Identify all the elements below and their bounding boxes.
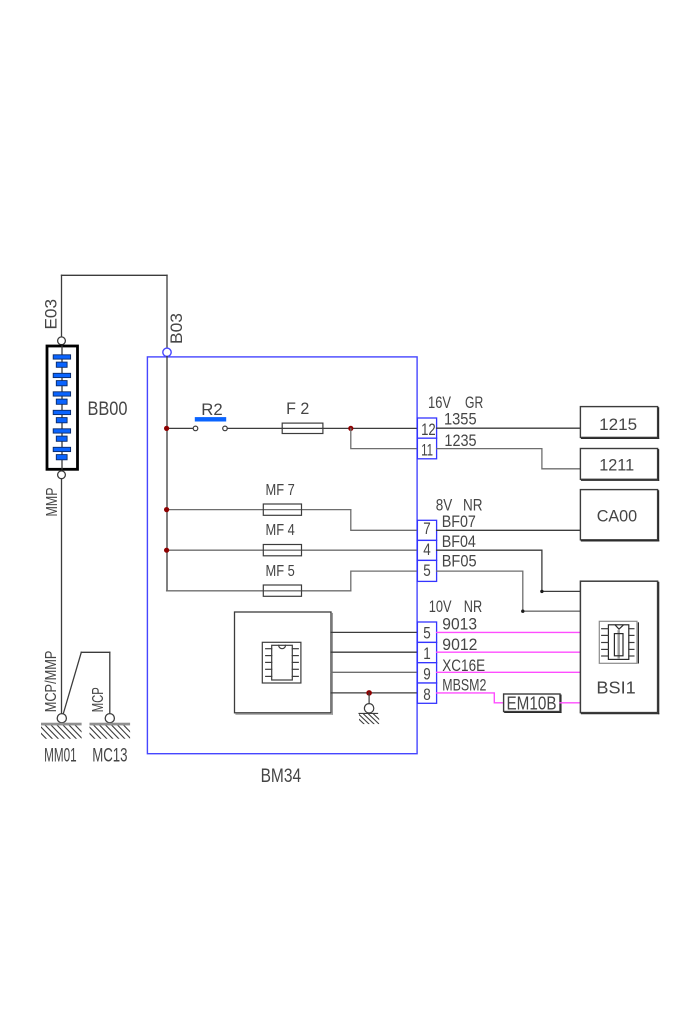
wire 9013 pin5 to BSI1 — [437, 631, 581, 633]
ECU box BM34 — [147, 357, 417, 754]
wire BF07 pin7 to CA00 — [437, 529, 581, 531]
connector box CA00 — [580, 490, 657, 540]
fuse F2 — [282, 423, 323, 433]
wire MF4 feed — [167, 549, 418, 551]
wire R2 feed — [167, 427, 194, 429]
wire U1 to pin 5 — [331, 631, 417, 633]
node battery top terminal — [58, 337, 66, 345]
wire BM34 supply vertical — [166, 275, 168, 348]
fuse MF5 — [263, 585, 301, 596]
pin 11 — [417, 438, 436, 459]
svg-text:E03: E03 — [41, 299, 60, 330]
svg-text:12: 12 — [421, 420, 436, 439]
wire MF5 feed — [167, 590, 351, 592]
svg-text:BM34: BM34 — [261, 766, 302, 787]
svg-text:MBSM2: MBSM2 — [442, 675, 486, 694]
wire through F2 to pin 12 — [282, 427, 417, 429]
wire MF7 feed — [167, 509, 351, 511]
wire MBSM2 pin8 to EM10B — [437, 693, 504, 703]
svg-text:BB00: BB00 — [88, 399, 128, 420]
connector box 1211 — [580, 449, 657, 480]
battery BB00 — [47, 346, 78, 469]
wire battery positive vertical — [61, 275, 63, 337]
svg-text:1355: 1355 — [444, 410, 477, 429]
wire U1 to pin 9 — [331, 671, 417, 673]
svg-text:1235: 1235 — [444, 431, 476, 450]
BM34 right edge pin column — [417, 418, 436, 703]
pin 1 — [417, 642, 436, 662]
svg-text:B03: B03 — [167, 313, 186, 344]
node battery bottom terminal — [58, 471, 66, 479]
wire U1 to pin 8 — [331, 692, 417, 694]
wire 9012 pin1 to BSI1 — [437, 651, 581, 653]
svg-text:MCP: MCP — [90, 687, 107, 712]
pin 5 lower connector — [417, 622, 436, 642]
pin 5 — [417, 560, 436, 581]
svg-text:4: 4 — [423, 540, 431, 559]
wire diagonal to second ground — [64, 652, 82, 713]
node junction feed MF7 — [164, 507, 169, 512]
relay contact R2 — [193, 417, 227, 431]
svg-text:8: 8 — [423, 685, 431, 704]
wire junction to pin 11 — [351, 428, 418, 448]
svg-text:BF05: BF05 — [442, 552, 477, 571]
svg-text:BSI1: BSI1 — [596, 678, 635, 698]
wire R2 to F2 — [227, 427, 282, 429]
pin 8 — [417, 683, 436, 703]
wire MF5 to pin 5 — [351, 571, 418, 591]
svg-text:MC13: MC13 — [92, 745, 127, 766]
wire battery negative to ground — [61, 479, 63, 714]
node BM34 supply entry — [163, 348, 171, 356]
wire EM10B to BSI1 — [560, 702, 580, 704]
svg-text:9: 9 — [423, 665, 431, 684]
svg-text:BF04: BF04 — [442, 532, 476, 551]
node corner BF04 — [540, 590, 543, 593]
wire MF7 to pin 7 — [351, 510, 418, 531]
wire second ground vertical — [109, 652, 111, 713]
wire internal feed vertical — [166, 357, 168, 591]
wire 1235 pin11 to 1211 — [437, 449, 581, 469]
wire horizontal to second ground — [81, 651, 110, 653]
ground MC13 — [82, 714, 138, 740]
pin 7 — [417, 520, 436, 540]
wire XC16E pin9 to BSI1 — [437, 671, 581, 673]
wire 1355 pin12 to 1215 — [437, 427, 581, 429]
node junction feed R2 — [164, 426, 169, 431]
pin numbers — [421, 420, 436, 704]
pin 9 — [417, 663, 436, 683]
pin 4 — [417, 540, 436, 560]
svg-text:1211: 1211 — [599, 456, 634, 475]
wire U1 to pin 1 — [331, 651, 417, 653]
svg-text:MF 7: MF 7 — [266, 482, 295, 499]
svg-text:9012: 9012 — [442, 635, 477, 654]
ground internal BM34 — [353, 704, 384, 724]
wire BF05 pin5 to BSI1 — [437, 571, 581, 611]
fuse MF7 — [263, 504, 301, 515]
svg-text:R2: R2 — [201, 400, 222, 419]
svg-text:F 2: F 2 — [286, 399, 309, 418]
svg-text:MF 4: MF 4 — [266, 522, 295, 539]
svg-text:5: 5 — [423, 561, 431, 580]
svg-text:7: 7 — [423, 519, 431, 538]
wire BF04 pin4 to BSI1 — [437, 550, 581, 591]
svg-text:EM10B: EM10B — [507, 694, 557, 714]
svg-text:9013: 9013 — [442, 615, 477, 634]
svg-text:1: 1 — [423, 644, 431, 663]
pin 12 — [417, 418, 436, 438]
wire top horizontal B+ — [62, 274, 168, 276]
ECU box BSI1 — [580, 581, 657, 712]
node corner BF05 — [521, 610, 524, 613]
svg-text:11: 11 — [421, 441, 433, 460]
svg-text:MF 5: MF 5 — [266, 563, 295, 580]
IC U1 icon — [262, 642, 301, 683]
svg-text:BF07: BF07 — [442, 512, 476, 531]
wire ground stub — [368, 693, 370, 704]
connector box EM10B — [504, 694, 560, 712]
IC BSI icon — [599, 621, 638, 663]
node junction F2 out — [348, 426, 353, 431]
svg-text:CA00: CA00 — [597, 506, 638, 525]
svg-text:5: 5 — [423, 623, 431, 642]
svg-text:MM01: MM01 — [44, 745, 77, 766]
ground MM01 — [33, 714, 89, 740]
fuse MF4 — [263, 545, 301, 556]
node junction ground tap — [366, 690, 372, 696]
svg-text:MCP/MMP: MCP/MMP — [43, 651, 60, 713]
svg-text:MMP: MMP — [44, 488, 61, 517]
svg-text:NR: NR — [464, 597, 482, 616]
connector box 1215 — [580, 407, 657, 438]
svg-text:1215: 1215 — [599, 415, 637, 434]
svg-text:10V: 10V — [429, 597, 452, 616]
node junction feed MF4 — [164, 548, 169, 553]
MCU box U1 — [235, 612, 332, 713]
